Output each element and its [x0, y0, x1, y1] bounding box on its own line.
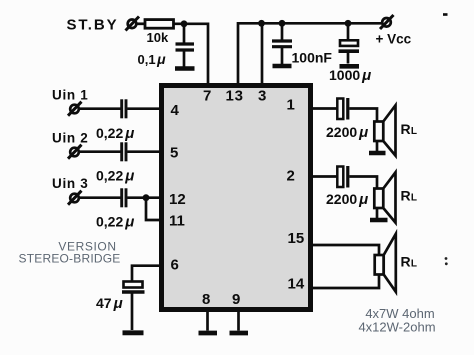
wire Uin2 to C5: [80, 150, 121, 153]
svg-text:14: 14: [288, 276, 305, 293]
svg-text:100nF: 100nF: [292, 50, 333, 66]
wire Uin3 to C6: [80, 196, 121, 199]
svg-text:6: 6: [171, 257, 179, 274]
speck artifact right: [445, 257, 448, 265]
ground for C1: [175, 66, 195, 71]
capacitor C2 100nF: [272, 23, 292, 64]
wire C8 to speaker 1: [349, 109, 377, 122]
svg-text:2200μ: 2200μ: [326, 124, 368, 141]
IC U1 body: [162, 86, 311, 310]
wire pin 8 to ground: [206, 310, 209, 331]
wire C9 to speaker 2: [349, 177, 377, 189]
ground for C3: [340, 64, 360, 69]
wire pin 14 to speaker 3: [310, 275, 379, 289]
svg-text:8: 8: [202, 291, 210, 308]
capacitor C8 2200u electrolytic: [337, 98, 348, 120]
svg-text:Uin 3: Uin 3: [52, 176, 89, 191]
svg-text:Uin 2: Uin 2: [52, 131, 89, 146]
wire pin 6 to C7: [132, 266, 162, 281]
ground for C7: [123, 330, 144, 335]
junction dot A: [181, 20, 188, 27]
junction dot 1000u: [345, 20, 352, 27]
svg-text:12: 12: [169, 191, 186, 208]
wire C4 to pin 4: [127, 107, 162, 110]
svg-text:1000μ: 1000μ: [329, 67, 371, 84]
wire C5 to pin 5: [127, 150, 162, 153]
capacitor C1 0,1u: [176, 24, 195, 67]
terminal Uin 1: [68, 102, 82, 116]
svg-text:2: 2: [287, 168, 295, 185]
svg-text:47μ: 47μ: [96, 295, 123, 312]
resistor R1 10k: [145, 20, 174, 29]
svg-text:5: 5: [170, 145, 178, 162]
svg-text:15: 15: [288, 230, 305, 247]
wire ST.BY to resistor: [137, 22, 145, 25]
wire speaker 2 to ground: [376, 208, 379, 218]
ground for C2: [273, 64, 292, 69]
speaker RL 2: [374, 172, 395, 222]
wire pin 15 to speaker 3: [310, 245, 379, 255]
wire pin 9 to ground: [237, 310, 240, 331]
wire pin 13 to Vcc rail: [238, 23, 382, 84]
svg-text:ST.BY: ST.BY: [67, 17, 119, 34]
terminal Uin 2: [68, 145, 82, 159]
svg-text:10k: 10k: [147, 30, 169, 45]
capacitor C4 0,22u: [122, 99, 126, 118]
speaker RL 3: [375, 234, 396, 292]
svg-text:0,22μ: 0,22μ: [96, 125, 134, 142]
wire resistor to pin 7: [174, 24, 209, 84]
svg-text:13: 13: [226, 88, 244, 105]
svg-text:7: 7: [203, 88, 211, 105]
terminal Uin 3: [68, 191, 82, 205]
svg-text:4: 4: [171, 102, 180, 119]
capacitor C3 1000u electrolytic: [339, 23, 360, 63]
svg-text:0,1μ: 0,1μ: [138, 51, 167, 67]
svg-text:9: 9: [232, 291, 240, 308]
svg-text:0,22μ: 0,22μ: [96, 214, 134, 231]
junction dot pin 3: [258, 20, 265, 27]
speck artifact: [443, 13, 448, 16]
svg-text:11: 11: [169, 213, 185, 230]
svg-text:1: 1: [287, 97, 295, 114]
svg-text:STEREO-BRIDGE: STEREO-BRIDGE: [19, 252, 121, 266]
wire pin 2 to C9: [310, 175, 337, 178]
wire Uin1 to C4: [80, 107, 121, 110]
speaker RL 1: [374, 105, 395, 155]
wire speaker 1 to ground: [376, 141, 379, 151]
ground speaker 1: [369, 151, 386, 156]
svg-text:3: 3: [258, 88, 266, 105]
ground pin 9: [230, 331, 249, 336]
capacitor C7 47u electrolytic: [122, 282, 145, 331]
terminal +Vcc: [380, 15, 394, 29]
ground speaker 2: [370, 218, 388, 223]
svg-text:+ Vcc: + Vcc: [376, 32, 412, 47]
junction dot 100nF: [279, 20, 286, 27]
svg-text:2200μ: 2200μ: [326, 191, 368, 208]
capacitor C6 0,22u: [122, 188, 126, 207]
capacitor C5 0,22u: [122, 142, 126, 161]
svg-text:Uin 1: Uin 1: [52, 88, 89, 103]
wire pin 3: [261, 23, 264, 84]
ground pin 8: [199, 331, 218, 336]
junction dot B: [143, 194, 150, 201]
capacitor C9 2200u electrolytic: [337, 166, 348, 188]
svg-text:4x12W-2ohm: 4x12W-2ohm: [358, 320, 435, 335]
svg-text:0,22μ: 0,22μ: [96, 168, 134, 185]
wire junction to pin 11: [146, 198, 162, 220]
wire pin 1 to C8: [310, 107, 337, 110]
terminal ST.BY: [126, 17, 140, 31]
wire C6 to pin 12: [127, 196, 162, 199]
